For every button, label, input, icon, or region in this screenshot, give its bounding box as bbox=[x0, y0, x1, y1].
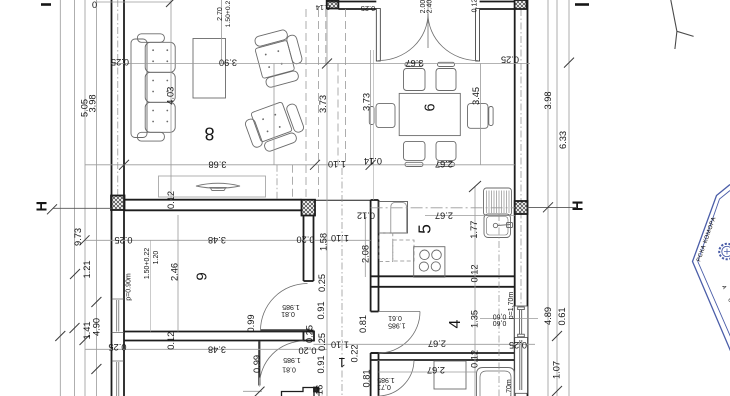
axis end ticks top bbox=[41, 3, 51, 6]
svg-text:3.73: 3.73 bbox=[318, 95, 328, 113]
right vertical dimension chains bbox=[547, 0, 549, 396]
wire kitchen bottom wall bbox=[371, 275, 515, 277]
wire room9 right wall lower stub bbox=[304, 330, 314, 332]
svg-text:0.12: 0.12 bbox=[469, 350, 479, 368]
stove bbox=[414, 247, 445, 278]
svg-text:1.20: 1.20 bbox=[153, 251, 160, 265]
svg-text:0.12: 0.12 bbox=[469, 264, 479, 282]
svg-text:3.48: 3.48 bbox=[208, 235, 226, 245]
svg-text:0.20: 0.20 bbox=[298, 346, 316, 356]
sofa bbox=[131, 34, 175, 141]
dining chair right bbox=[468, 104, 494, 129]
svg-text:0,71: 0,71 bbox=[377, 383, 391, 390]
dining chair top-left bbox=[404, 62, 426, 90]
tv set bbox=[196, 183, 240, 188]
svg-text:0.25: 0.25 bbox=[317, 274, 327, 292]
door french jamb right bbox=[476, 9, 480, 62]
svg-text:4: 4 bbox=[447, 319, 464, 328]
kitchen cabinets dashed bbox=[379, 233, 414, 261]
svg-text:2.40: 2.40 bbox=[426, 0, 433, 13]
svg-text:0.12: 0.12 bbox=[471, 0, 478, 12]
svg-text:0.25: 0.25 bbox=[361, 4, 376, 13]
svg-text:0.25: 0.25 bbox=[111, 57, 129, 67]
svg-text:2.67: 2.67 bbox=[435, 159, 453, 169]
coffee table bbox=[193, 39, 226, 99]
dashed boundary lines mid plan bbox=[276, 165, 278, 200]
washer/shower rect in bath bbox=[434, 361, 466, 389]
node left wall axis dash-dot bbox=[117, 0, 119, 196]
dining chair bottom-left bbox=[404, 141, 426, 166]
node hatch block top-right bbox=[515, 0, 527, 9]
kitchen sink drainboard bbox=[484, 188, 512, 216]
svg-text:1.10: 1.10 bbox=[331, 233, 349, 243]
armchair top bbox=[252, 27, 307, 89]
svg-text:2.46: 2.46 bbox=[170, 263, 180, 281]
node entry wall bar bbox=[314, 388, 318, 392]
svg-text:1.985: 1.985 bbox=[388, 321, 406, 328]
svg-text:3.67: 3.67 bbox=[405, 58, 423, 68]
svg-text:4.03: 4.03 bbox=[165, 87, 175, 105]
door french jamb left bbox=[376, 9, 380, 62]
svg-text:0.99: 0.99 bbox=[246, 314, 256, 332]
wire corridor/kitchen wall upper bbox=[370, 200, 372, 312]
wire corridor/kitchen wall lower bbox=[370, 353, 372, 396]
node right wall axis dash-dot bbox=[520, 9, 522, 306]
svg-text:0.81: 0.81 bbox=[361, 369, 371, 387]
svg-text:3.73: 3.73 bbox=[361, 93, 371, 111]
node room9 bottom wall right end cap bbox=[304, 332, 315, 341]
svg-text:4.89: 4.89 bbox=[543, 307, 553, 325]
svg-text:0.16: 0.16 bbox=[315, 385, 325, 396]
svg-text:0.25: 0.25 bbox=[304, 325, 314, 343]
svg-text:1.985: 1.985 bbox=[282, 303, 300, 310]
svg-text:0: 0 bbox=[92, 0, 97, 10]
svg-text:3.48: 3.48 bbox=[208, 344, 226, 354]
kitchen sink bowl bbox=[484, 214, 513, 238]
svg-text:0.14: 0.14 bbox=[364, 156, 382, 166]
svg-text:2.67: 2.67 bbox=[427, 365, 445, 375]
dining chair top-right bbox=[436, 62, 456, 90]
svg-text:0.99: 0.99 bbox=[252, 355, 262, 373]
node hatch block right H-junction bbox=[515, 201, 528, 214]
wire left exterior wall faces bbox=[111, 0, 113, 396]
svg-text:p=0.90m: p=0.90m bbox=[125, 273, 132, 301]
svg-text:0.25: 0.25 bbox=[501, 55, 519, 65]
svg-text:0.12: 0.12 bbox=[166, 191, 176, 209]
svg-text:1.07: 1.07 bbox=[552, 361, 562, 379]
svg-text:2.08: 2.08 bbox=[360, 245, 370, 263]
svg-text:9: 9 bbox=[194, 272, 211, 280]
door bath leaf+arc D5 bbox=[378, 360, 415, 362]
svg-text:0.61: 0.61 bbox=[557, 307, 567, 325]
svg-text:0.25: 0.25 bbox=[114, 235, 132, 245]
door room9 bottom leaf+arc D3 bbox=[258, 341, 260, 386]
wire top wall between hatch blocks bbox=[327, 1, 377, 3]
svg-text:2.67: 2.67 bbox=[435, 210, 453, 220]
inner vertical dim lines bbox=[170, 0, 172, 200]
svg-text:0.12: 0.12 bbox=[166, 332, 176, 350]
dining chair bottom-right bbox=[436, 141, 456, 166]
wire corridor top edge bbox=[315, 199, 371, 201]
dining table bbox=[399, 93, 460, 135]
H axis section line bbox=[53, 207, 112, 209]
svg-text:8: 8 bbox=[204, 124, 214, 144]
svg-text:1.10: 1.10 bbox=[328, 159, 346, 169]
left vertical dimension chains bbox=[59, 0, 61, 396]
window right wall p=1.70 bbox=[513, 306, 528, 338]
svg-text:0.91: 0.91 bbox=[316, 355, 326, 373]
svg-text:1.21: 1.21 bbox=[82, 260, 92, 278]
stamp bbox=[693, 185, 730, 353]
svg-text:0,60: 0,60 bbox=[493, 312, 507, 319]
svg-text:3.98: 3.98 bbox=[543, 91, 553, 109]
armchair bottom bbox=[242, 98, 307, 156]
svg-text:1.35: 1.35 bbox=[469, 310, 479, 328]
svg-text:H: H bbox=[35, 201, 51, 211]
bathtub bbox=[477, 368, 515, 396]
svg-text:6.33: 6.33 bbox=[558, 131, 568, 149]
svg-text:5: 5 bbox=[415, 224, 435, 234]
svg-text:1.77: 1.77 bbox=[469, 221, 479, 239]
svg-text:0.14: 0.14 bbox=[316, 3, 331, 12]
svg-text:1.10: 1.10 bbox=[331, 340, 349, 350]
svg-text:0.22: 0.22 bbox=[350, 344, 360, 362]
svg-text:0.81: 0.81 bbox=[281, 310, 295, 317]
door room9 right leaf+arc D2 bbox=[261, 329, 308, 331]
door french arcs D1 bbox=[378, 14, 428, 61]
svg-text:3.45: 3.45 bbox=[471, 87, 481, 105]
tv bench bbox=[159, 176, 266, 197]
svg-text:1.58: 1.58 bbox=[318, 233, 328, 251]
tree branch bbox=[671, 0, 694, 49]
kitchen counter block bbox=[379, 202, 408, 234]
svg-text:9.73: 9.73 bbox=[73, 228, 83, 246]
svg-text:0.20: 0.20 bbox=[296, 235, 314, 245]
svg-text:0.12: 0.12 bbox=[357, 211, 375, 221]
door corridor-room4 leaf+arc D4 bbox=[379, 311, 421, 313]
svg-text:4.90: 4.90 bbox=[91, 318, 101, 336]
wire entry bottom niche bbox=[282, 388, 315, 396]
window left wall room9 p=0.90 bbox=[112, 299, 125, 333]
horizontal dimension rows bbox=[112, 63, 531, 65]
kitchen counter appliance rounded bbox=[391, 203, 407, 234]
svg-text:0.25: 0.25 bbox=[509, 340, 527, 350]
wire room9 right wall upper bbox=[303, 216, 305, 282]
svg-text:p=1.70m: p=1.70m bbox=[506, 379, 513, 396]
svg-text:1.985: 1.985 bbox=[377, 376, 395, 383]
svg-text:3.90: 3.90 bbox=[219, 58, 237, 68]
dining chair left bbox=[369, 104, 395, 128]
svg-text:1.985: 1.985 bbox=[283, 356, 301, 363]
svg-text:H: H bbox=[571, 201, 587, 211]
svg-text:0.81: 0.81 bbox=[282, 365, 296, 372]
window right wall bath bbox=[515, 338, 528, 394]
svg-text:6: 6 bbox=[423, 103, 439, 111]
window left wall bottom bbox=[112, 361, 125, 396]
svg-text:0.25: 0.25 bbox=[317, 333, 327, 351]
wire bath top wall bbox=[371, 352, 515, 354]
svg-text:3.68: 3.68 bbox=[208, 159, 226, 169]
svg-text:1: 1 bbox=[338, 355, 345, 370]
wire right exterior wall faces bbox=[514, 9, 516, 396]
svg-text:0,60: 0,60 bbox=[493, 319, 507, 326]
svg-text:2.70: 2.70 bbox=[217, 7, 224, 21]
wire room9 bottom wall bbox=[124, 331, 304, 333]
svg-text:2.67: 2.67 bbox=[428, 339, 446, 349]
svg-text:0.91: 0.91 bbox=[316, 301, 326, 319]
svg-text:0.25: 0.25 bbox=[108, 342, 126, 352]
node hatch block left H-junction bbox=[111, 196, 125, 211]
svg-text:1.50+0.2: 1.50+0.2 bbox=[225, 0, 232, 27]
node hatch block wall9 right end bbox=[302, 200, 316, 216]
node hatch block top-middle bbox=[327, 0, 339, 9]
svg-text:0.81: 0.81 bbox=[358, 315, 368, 333]
svg-text:3.98: 3.98 bbox=[87, 94, 97, 112]
svg-text:0.61: 0.61 bbox=[388, 314, 402, 321]
wire living/room9 divider wall bbox=[125, 199, 302, 201]
svg-text:p=1.70m: p=1.70m bbox=[508, 292, 515, 320]
svg-text:1.50+0.22: 1.50+0.22 bbox=[144, 248, 151, 279]
